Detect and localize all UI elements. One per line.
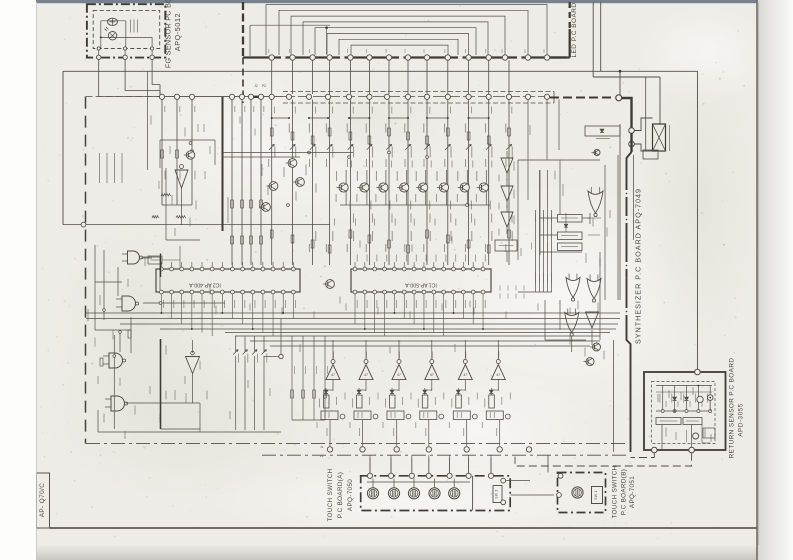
- svg-text:47: 47: [364, 373, 368, 377]
- svg-text:SW 1: SW 1: [594, 490, 598, 499]
- svg-text:47: 47: [397, 373, 401, 377]
- svg-text:TOUCH SWITCH: TOUCH SWITCH: [327, 468, 334, 521]
- svg-text:SYNTHESIZER P.C BOARD APQ-7: SYNTHESIZER P.C BOARD APQ-7049: [634, 188, 643, 344]
- svg-text:AP- Q70/C: AP- Q70/C: [39, 483, 46, 518]
- svg-text:IC1 AP-500-A: IC1 AP-500-A: [405, 282, 437, 288]
- svg-text:APQ-7051: APQ-7051: [629, 476, 636, 508]
- svg-text:TOUCH SWITCH: TOUCH SWITCH: [612, 465, 619, 518]
- svg-text:P2: P2: [262, 84, 266, 88]
- svg-text:47: 47: [496, 373, 500, 377]
- svg-text:APQ-5012: APQ-5012: [173, 13, 182, 51]
- svg-text:RETURN SENSOR P.C BOARD: RETURN SENSOR P.C BOARD: [729, 358, 736, 459]
- svg-text:APQ-7050: APQ-7050: [347, 479, 354, 511]
- svg-text:IC2 AP-400-A: IC2 AP-400-A: [189, 282, 221, 288]
- svg-text:P.C BOARD(A): P.C BOARD(A): [337, 472, 344, 518]
- svg-text:FG SENSOR PC BOA: FG SENSOR PC BOA: [164, 0, 173, 68]
- svg-text:J2: J2: [254, 84, 258, 88]
- svg-text:P.C BOARD(B): P.C BOARD(B): [621, 469, 628, 515]
- svg-text:LED P.C BOARD: LED P.C BOARD: [571, 2, 578, 57]
- svg-text:J1: J1: [320, 445, 324, 449]
- svg-text:47: 47: [463, 373, 467, 377]
- svg-text:APD-3055: APD-3055: [738, 403, 745, 437]
- svg-text:47: 47: [430, 373, 434, 377]
- svg-text:SW 2: SW 2: [495, 489, 499, 498]
- svg-text:47: 47: [331, 373, 335, 377]
- svg-text:P1: P1: [320, 454, 324, 458]
